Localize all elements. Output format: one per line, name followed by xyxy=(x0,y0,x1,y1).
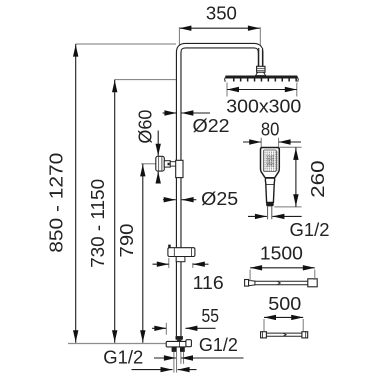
dim 55 (offset at bottom tee) xyxy=(152,305,219,335)
handshower inlet stub xyxy=(267,206,269,219)
svg-text:1500: 1500 xyxy=(260,242,303,263)
dim O25 (lower tube diameter) xyxy=(163,188,238,209)
svg-text:850 - 1270: 850 - 1270 xyxy=(46,153,67,253)
spray face dots xyxy=(263,151,266,154)
svg-text:G1/2: G1/2 xyxy=(199,334,238,355)
dim G1/2 handshower thread xyxy=(248,214,330,240)
dim 730 - 1150 (height to head underside) xyxy=(87,80,176,343)
handshower handle xyxy=(265,178,274,202)
outlet nuts xyxy=(172,347,177,352)
hose 500 xyxy=(261,332,308,338)
bracket arm xyxy=(164,161,170,167)
bottom tee connection assembly xyxy=(166,336,191,373)
dim O60 (wall flange diameter) xyxy=(135,110,161,184)
hose 1500 xyxy=(245,279,318,287)
svg-text:80: 80 xyxy=(261,119,280,140)
overhead shower head 300x300 (side view) xyxy=(225,76,299,82)
svg-text:350: 350 xyxy=(206,3,237,24)
dim G1/2 side outlet xyxy=(154,334,244,361)
shower column riser and arm tube xyxy=(179,46,261,337)
dim 500 (hose length) xyxy=(264,293,303,331)
dim O22 (upper tube diameter) xyxy=(163,110,230,136)
connector nut xyxy=(257,66,265,72)
pipe sleeve at bracket xyxy=(176,160,183,177)
wall bracket flange xyxy=(156,156,183,177)
dim 350 (top width of arm) xyxy=(179,3,260,48)
svg-text:500: 500 xyxy=(268,293,301,314)
svg-text:G1/2: G1/2 xyxy=(103,346,143,367)
side outlet knob xyxy=(186,340,192,347)
svg-text:Ø22: Ø22 xyxy=(193,115,230,136)
dim 300x300 xyxy=(226,83,301,117)
overhead shower connector tube xyxy=(256,48,266,76)
svg-text:Ø60: Ø60 xyxy=(135,110,156,144)
floor reference baseline xyxy=(68,343,166,345)
svg-text:260: 260 xyxy=(307,160,328,198)
svg-text:730 - 1150: 730 - 1150 xyxy=(87,179,108,268)
dim G1/2 bottom inlet xyxy=(103,346,196,372)
dense centre dot cluster xyxy=(266,154,269,157)
dim 1500 (hose length) xyxy=(250,242,315,281)
handshower detail view xyxy=(261,148,280,220)
dim 116 (bracket projection) xyxy=(153,258,224,293)
svg-text:Ø25: Ø25 xyxy=(201,188,238,209)
svg-text:790: 790 xyxy=(116,224,137,258)
svg-text:116: 116 xyxy=(193,272,224,293)
tee valve body xyxy=(166,341,186,347)
slider holder on rail xyxy=(168,245,195,262)
dim 850 - 1270 (overall height) xyxy=(46,44,176,343)
svg-text:300x300: 300x300 xyxy=(226,96,301,117)
dim 260 (handshower length) xyxy=(274,147,328,207)
dim 790 (height to wall bracket) xyxy=(116,164,156,343)
svg-text:55: 55 xyxy=(202,305,220,326)
bottom inlet tube xyxy=(173,352,175,373)
dim 80 (handshower width) xyxy=(243,119,301,147)
nozzle teeth xyxy=(233,79,235,82)
handshower head outline xyxy=(261,148,280,178)
svg-text:G1/2: G1/2 xyxy=(290,219,330,240)
